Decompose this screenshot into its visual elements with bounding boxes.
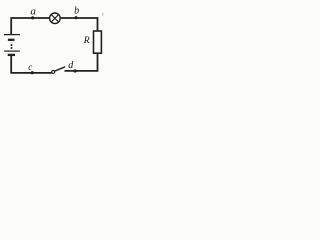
svg-text:a: a bbox=[30, 5, 36, 17]
svg-text:b: b bbox=[74, 6, 79, 17]
svg-text:d: d bbox=[68, 60, 74, 71]
svg-text:R: R bbox=[83, 35, 90, 46]
svg-text:c: c bbox=[28, 62, 32, 72]
